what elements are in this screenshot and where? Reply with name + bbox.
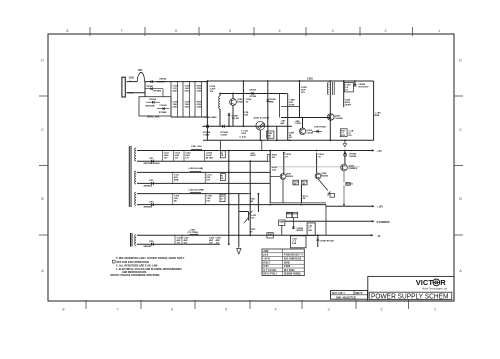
- svg-text:TU-II: TU-II: [250, 217, 255, 219]
- svg-text:SH2-CMM-RLDS: SH2-CMM-RLDS: [284, 259, 302, 261]
- svg-text:2N2905: 2N2905: [321, 175, 329, 177]
- svg-text:GN/B: GN/B: [284, 262, 290, 264]
- svg-text:16V: 16V: [206, 201, 210, 203]
- svg-text:RET (-PT4) 2: RET (-PT4) 2: [263, 273, 277, 276]
- svg-text:6: 6: [175, 29, 177, 33]
- svg-text:5: 5: [229, 29, 231, 33]
- svg-text:(TU-TRIM): (TU-TRIM): [188, 232, 199, 234]
- svg-text:C1B4: C1B4: [210, 85, 216, 88]
- svg-text:1K: 1K: [285, 157, 288, 159]
- svg-text:100PF: 100PF: [345, 105, 352, 107]
- svg-text:CR1B4: CR1B4: [159, 77, 167, 80]
- svg-text:470M: 470M: [289, 104, 294, 107]
- svg-text:/.5UF: /.5UF: [241, 133, 247, 135]
- svg-text:CR1: CR1: [149, 158, 154, 160]
- svg-text:L1B3 (00-0MB): L1B3 (00-0MB): [189, 189, 204, 191]
- svg-text:REF FOR 230V OPERATION,: REF FOR 230V OPERATION,: [117, 261, 150, 264]
- svg-text:(MR826): (MR826): [144, 185, 153, 187]
- svg-text:350V: 350V: [173, 107, 179, 109]
- svg-text:10V: 10V: [209, 242, 213, 244]
- svg-text:2.2K: 2.2K: [272, 170, 277, 172]
- svg-text:COUNT: COUNT: [295, 123, 303, 125]
- svg-text:- 12: - 12: [376, 235, 381, 238]
- svg-text:15B: 15B: [244, 115, 248, 117]
- svg-text:+ 5V: + 5V: [377, 150, 383, 153]
- svg-text:47W: 47W: [341, 134, 345, 137]
- svg-text:10V: 10V: [177, 242, 181, 244]
- svg-text:D: D: [41, 59, 44, 63]
- svg-text:SHT 1 OF 1: SHT 1 OF 1: [332, 292, 345, 295]
- svg-text:1W: 1W: [250, 201, 253, 203]
- svg-text:3: 3: [327, 308, 329, 312]
- svg-text:5. REF SCHEMATIC ASSY, 115/230: 5. REF SCHEMATIC ASSY, 115/230V 50/60HZ,…: [116, 257, 185, 260]
- svg-text:C1B4: C1B4: [173, 101, 179, 104]
- svg-text:3: 3: [331, 29, 333, 33]
- svg-text:CR4: CR4: [149, 240, 154, 243]
- svg-text:100UF: 100UF: [250, 155, 257, 157]
- svg-text:6: 6: [171, 308, 173, 312]
- svg-text:2: 2: [384, 29, 386, 33]
- svg-text:A: A: [459, 269, 462, 273]
- svg-text:RY5BM: RY5BM: [159, 112, 167, 114]
- svg-text:C1BM: C1BM: [203, 134, 209, 136]
- svg-text:R1B5 56: R1B5 56: [346, 184, 353, 186]
- svg-text:MR826: MR826: [297, 230, 304, 232]
- svg-text:1KV: 1KV: [301, 92, 306, 94]
- svg-text:470K: 470K: [197, 103, 203, 106]
- svg-text:MR50B: MR50B: [144, 246, 152, 248]
- svg-text:A1B2: A1B2: [268, 233, 273, 236]
- svg-text:RY50M: RY50M: [250, 96, 257, 98]
- svg-text:2: 2: [380, 308, 382, 312]
- svg-text:RLY STB2: RLY STB2: [284, 270, 295, 272]
- svg-text:5: 5: [225, 308, 227, 312]
- svg-text:C1BM: C1BM: [221, 134, 227, 136]
- svg-text:10V: 10V: [185, 158, 189, 160]
- svg-text:DWL 40100CTCB: DWL 40100CTCB: [336, 296, 356, 299]
- svg-text:10V: 10V: [210, 91, 214, 93]
- svg-text:CR1B3: CR1B3: [249, 90, 257, 92]
- svg-text:500V: 500V: [173, 91, 179, 93]
- svg-text:ZBA1, 1KX: ZBA1, 1KX: [147, 115, 160, 118]
- svg-text:P-DIS-DRL/S2 T 4: P-DIS-DRL/S2 T 4: [284, 254, 303, 257]
- svg-text:500V: 500V: [185, 91, 191, 93]
- svg-text:1N4148: 1N4148: [349, 155, 357, 158]
- svg-text:B: B: [459, 197, 462, 201]
- svg-text:S T T GY/GL: S T T GY/GL: [263, 270, 277, 272]
- svg-text:+ 12V: + 12V: [377, 206, 384, 209]
- svg-text:1H: 1H: [345, 90, 348, 92]
- svg-text:R B2 T: R B2 T: [263, 262, 271, 264]
- svg-text:D: D: [459, 59, 462, 63]
- svg-text:CB1: CB1: [138, 70, 143, 72]
- svg-text:350V: 350V: [185, 107, 191, 109]
- svg-text:CR1B9 RY50M: CR1B9 RY50M: [320, 241, 334, 243]
- svg-text:10V: 10V: [175, 158, 179, 160]
- svg-text:24B: 24B: [375, 114, 379, 117]
- svg-text:8: 8: [66, 29, 68, 33]
- svg-text:(2N5883): (2N5883): [349, 168, 358, 170]
- svg-text:CR3: CR3: [149, 201, 154, 203]
- svg-text:C2500B: C2500B: [335, 118, 343, 120]
- svg-text:C1B9 54B5: C1B9 54B5: [205, 116, 217, 119]
- svg-text:L1B2 (00-04B): L1B2 (00-04B): [189, 167, 204, 170]
- svg-text:L1B1: L1B1: [191, 146, 197, 148]
- svg-text:p1 B: p1 B: [263, 255, 268, 257]
- svg-text:4LB: 4LB: [308, 229, 312, 232]
- svg-text:8: 8: [62, 308, 64, 312]
- svg-text:L1B4: L1B4: [190, 228, 196, 231]
- svg-text:2N2905: 2N2905: [286, 176, 294, 178]
- svg-text:12V 5W: 12V 5W: [232, 118, 239, 120]
- svg-text:CR1B5: CR1B5: [149, 99, 157, 101]
- svg-text:MBB: MBB: [269, 102, 274, 104]
- svg-text:P B22: P B22: [284, 266, 291, 268]
- svg-text:A: A: [41, 269, 44, 273]
- svg-text:ADD:: ADD:: [263, 250, 269, 253]
- svg-text:7: 7: [120, 29, 122, 33]
- svg-text:SESOM-THR(B): SESOM-THR(B): [284, 274, 301, 276]
- svg-text:4R TEN: 4R TEN: [206, 157, 214, 160]
- svg-text:150: 150: [302, 184, 305, 186]
- svg-text:RY50M: RY50M: [157, 81, 164, 83]
- svg-text:R: R: [440, 278, 446, 287]
- svg-text:RY5BM: RY5BM: [154, 90, 162, 92]
- svg-text:MR1B2B: MR1B2B: [146, 106, 155, 108]
- svg-text:CR2: CR2: [149, 180, 154, 182]
- svg-text:B: B: [41, 197, 44, 201]
- svg-text:NOTES: UNLESS OTHERWISE SPECIF: NOTES: UNLESS OTHERWISE SPECIFIED,: [111, 274, 161, 277]
- svg-text:1U: 1U: [246, 102, 249, 104]
- svg-text:C: C: [459, 128, 462, 132]
- svg-text:470K: 470K: [197, 87, 203, 90]
- svg-text:10V: 10V: [184, 242, 188, 244]
- svg-text:R1D4: R1D4: [293, 213, 298, 216]
- svg-text:(MR826): (MR826): [144, 207, 153, 209]
- svg-text:Victor Technologies, Inc.: Victor Technologies, Inc.: [422, 287, 448, 290]
- svg-text:Z1B1: Z1B1: [307, 78, 314, 81]
- svg-text:16V: 16V: [206, 180, 210, 182]
- svg-text:5, A-DL: 5, A-DL: [240, 136, 248, 139]
- svg-text:10V: 10V: [164, 158, 168, 160]
- svg-text:R1C9: R1C9: [286, 213, 292, 215]
- svg-text:+5V B: +5V B: [263, 259, 270, 261]
- svg-text:SCHOTKY: SCHOTKY: [358, 87, 369, 89]
- svg-text:C BY: C BY: [263, 266, 269, 268]
- svg-text:R1B HY50M: R1B HY50M: [315, 127, 327, 129]
- svg-text:7: 7: [116, 308, 118, 312]
- svg-text:VICT: VICT: [416, 278, 434, 287]
- svg-text:MR750B/CHAM: MR750B/CHAM: [144, 162, 160, 165]
- svg-text:4: 4: [274, 308, 276, 312]
- svg-text:4MB: 4MB: [174, 179, 179, 182]
- svg-text:1: 1: [438, 29, 440, 33]
- svg-text:4.5B: 4.5B: [292, 242, 297, 245]
- svg-text:Q1B2 (2-XXXX): Q1B2 (2-XXXX): [254, 118, 270, 120]
- svg-text:C250B: C250B: [307, 132, 314, 134]
- svg-text:C: C: [41, 128, 44, 132]
- svg-text:10V: 10V: [216, 242, 220, 244]
- svg-text:S COMMON: S COMMON: [377, 222, 390, 224]
- svg-text:4: 4: [278, 29, 280, 33]
- svg-text:C1B1B: C1B1B: [160, 105, 168, 107]
- svg-text:2UH: 2UH: [198, 146, 203, 148]
- svg-text:CR1B3: CR1B3: [146, 86, 154, 88]
- svg-text:REF B: REF B: [355, 292, 362, 295]
- svg-text:1: 1: [434, 308, 436, 312]
- svg-text:150: 150: [294, 184, 297, 186]
- svg-text:POWER SUPPLY SCHEM: POWER SUPPLY SCHEM: [371, 291, 449, 300]
